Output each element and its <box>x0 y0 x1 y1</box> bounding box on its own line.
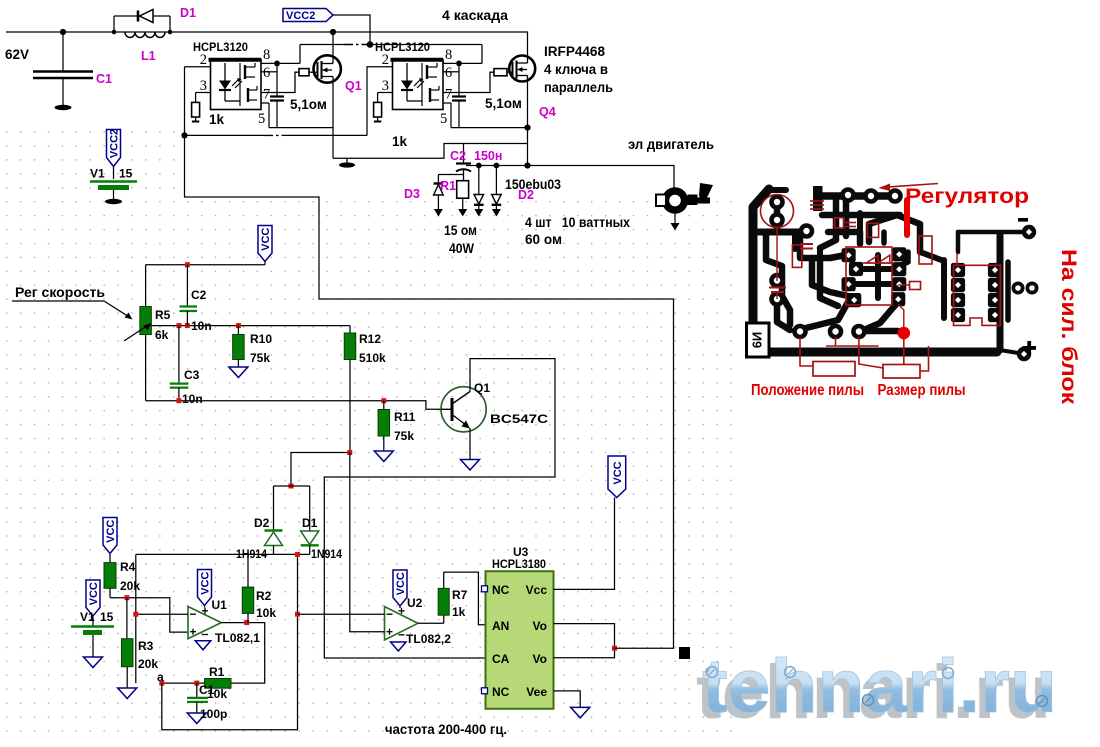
pcb trace cluster h a <box>856 266 897 272</box>
ground R11 <box>374 451 393 462</box>
pcb pads square mid column <box>842 248 864 307</box>
wire drive rail b <box>282 134 367 136</box>
pin 5 U1 <box>258 103 269 128</box>
svg-text:R11: R11 <box>394 410 416 424</box>
pcb trace ic top link <box>920 252 944 261</box>
pcb trace filler i <box>820 258 838 306</box>
wire U1 output <box>221 623 264 684</box>
wire VCC U2 stem <box>399 607 401 609</box>
silk diode triac <box>862 255 894 263</box>
diode D1 <box>114 10 170 33</box>
arrow D2a <box>474 209 483 217</box>
svg-text:5: 5 <box>258 111 265 127</box>
svg-text:эл двигатель: эл двигатель <box>628 137 714 152</box>
pcb trace cluster v <box>875 255 881 298</box>
node R2 bottom <box>244 620 249 625</box>
svg-text:4 каскада: 4 каскада <box>442 8 509 23</box>
node D1 left <box>112 30 117 35</box>
wire VCC2 to rail <box>333 15 370 45</box>
wire stage2 pin5 rail <box>451 127 528 129</box>
power flag VCC U2 <box>393 570 407 606</box>
pin NC1 marker <box>482 586 488 592</box>
svg-text:HCPL3180: HCPL3180 <box>492 557 546 571</box>
svg-text:R12: R12 <box>359 332 381 346</box>
resistor gate 5,1om stage2 <box>459 69 509 93</box>
resistor 1k U1 <box>192 102 200 121</box>
silk rect small b <box>867 223 878 237</box>
resistor R3 <box>121 598 133 688</box>
ground U2 <box>391 642 407 651</box>
ground V1 top <box>105 199 122 204</box>
inductor L1 <box>125 32 165 38</box>
svg-text:параллель: параллель <box>544 80 613 95</box>
wire Q1 source <box>332 83 334 159</box>
diode D2a snubber <box>474 166 484 210</box>
pcb minus stub <box>956 232 961 252</box>
svg-text:5,1ом: 5,1ом <box>485 96 522 111</box>
svg-text:TL082,1: TL082,1 <box>215 631 260 645</box>
svg-text:R5: R5 <box>155 308 171 322</box>
pcb trace top row <box>818 192 895 200</box>
silk ic outline <box>954 265 1001 325</box>
silk rect thin right <box>910 282 921 290</box>
svg-text:60 ом: 60 ом <box>525 232 562 247</box>
diode D1 1N914 <box>301 531 319 554</box>
node R11 top <box>381 398 386 403</box>
resistor R7 <box>438 572 449 623</box>
svg-text:6: 6 <box>445 65 452 81</box>
power flag VCC R4 <box>103 518 117 554</box>
svg-text:Vo: Vo <box>533 652 547 666</box>
svg-text:R3: R3 <box>138 639 154 653</box>
wire drive rail dash <box>264 134 282 136</box>
diode D3 snubber <box>434 184 444 210</box>
label minus terminal <box>1018 218 1028 222</box>
capacitor C3 <box>170 326 189 401</box>
ground Vee <box>571 707 590 718</box>
wire R7 to AN <box>444 572 486 625</box>
pcb trace left v1 <box>766 232 782 296</box>
pin 7 U2 <box>443 87 459 103</box>
silk cap lines a <box>810 201 824 209</box>
wire output to drive <box>185 67 674 649</box>
power flag VCC osc <box>258 226 272 262</box>
transistor Q1 MOSFET <box>314 55 341 82</box>
svg-text:2: 2 <box>382 52 389 68</box>
svg-text:L1: L1 <box>141 49 156 63</box>
motor M1 <box>656 187 710 213</box>
wire Vee U3 <box>554 691 581 708</box>
node C2 bottom <box>185 323 190 328</box>
wire Q1 emitter <box>469 428 471 460</box>
node junction C1 <box>60 29 66 35</box>
ground C1 <box>55 105 72 110</box>
silk pointer bar <box>904 200 910 235</box>
capacitor C1 osc <box>187 683 208 713</box>
svg-text:150ebu03: 150ebu03 <box>505 177 561 192</box>
silk rect small a <box>835 218 844 228</box>
power flag VCC2 left <box>107 130 121 167</box>
pcb trace mid grid c <box>812 258 848 296</box>
silk link right <box>898 284 910 286</box>
svg-text:15: 15 <box>100 610 114 624</box>
svg-text:AN: AN <box>492 619 509 633</box>
arrow R1 snubber <box>458 209 467 217</box>
pcb trace filler d <box>899 252 908 266</box>
pcb trace filler c <box>881 232 887 243</box>
pcb trace bottom link <box>862 328 898 335</box>
pcb trace ic left rail <box>941 260 947 318</box>
svg-text:NC: NC <box>492 583 510 597</box>
wire U2 output <box>418 622 444 624</box>
svg-text:VCC: VCC <box>200 572 212 595</box>
wire minus input U2 <box>298 613 385 615</box>
wire plus input U2 <box>350 453 385 632</box>
svg-text:Размер пилы: Размер пилы <box>878 382 966 399</box>
battery V1 top <box>90 182 137 200</box>
svg-text:R1: R1 <box>440 179 456 193</box>
svg-text:R7: R7 <box>452 588 468 602</box>
wire VCC U1 stem <box>204 606 206 608</box>
ground V1 lower <box>84 657 103 668</box>
node diode bottom <box>295 552 300 557</box>
pin 8 U1 <box>261 45 300 64</box>
node diode top <box>289 484 294 489</box>
node minus U1 <box>133 612 138 617</box>
wire motor arrow <box>674 214 676 223</box>
silk red dot <box>898 327 911 340</box>
svg-text:R10: R10 <box>250 332 272 346</box>
pcb terminal plus pad <box>1017 347 1031 361</box>
svg-text:VCC2: VCC2 <box>286 10 315 22</box>
silk pot1 leads <box>800 337 883 368</box>
node pin8 junction <box>456 61 462 67</box>
node junction Q1 drain <box>330 29 336 35</box>
wire a to bottom rail <box>162 554 298 729</box>
ground stage1 <box>339 158 355 167</box>
pcb trace filler g <box>857 213 863 232</box>
svg-text:6И: 6И <box>749 332 764 349</box>
node Vo junction <box>612 646 617 651</box>
pcb pads round <box>769 187 903 339</box>
silk lines small a <box>845 223 856 227</box>
svg-text:40W: 40W <box>449 241 474 256</box>
pcb trace mid v2 <box>820 215 836 248</box>
wire VCC2 rail b <box>368 44 482 46</box>
resistor R10 <box>233 326 245 367</box>
resistor R2 <box>242 554 254 622</box>
svg-text:75k: 75k <box>394 429 414 443</box>
silk pot2 leads <box>904 338 929 371</box>
capacitor bootstrap U1 <box>270 63 284 127</box>
node D1 right <box>168 30 173 35</box>
svg-text:R2: R2 <box>256 589 272 603</box>
svg-text:D2: D2 <box>254 516 270 530</box>
pcb trace filler e <box>843 215 850 236</box>
silk arrow to regulator <box>879 184 939 192</box>
pcb trace mid grid d <box>857 232 864 244</box>
pcb minus trace <box>958 230 1024 235</box>
node D2b <box>494 163 500 169</box>
svg-text:1Н914: 1Н914 <box>236 547 267 561</box>
svg-text:20k: 20k <box>138 657 158 671</box>
svg-text:1k: 1k <box>392 134 408 149</box>
svg-text:Vee: Vee <box>526 685 547 699</box>
svg-text:a: a <box>157 670 164 684</box>
pcb trace filler f <box>828 229 856 236</box>
svg-text:15: 15 <box>119 167 133 181</box>
svg-text:8: 8 <box>445 47 452 63</box>
label Рег скорость <box>12 285 133 320</box>
svg-text:D1: D1 <box>302 516 318 530</box>
optocoupler U2 HCPL3120 <box>391 60 444 110</box>
svg-text:D1: D1 <box>180 6 196 20</box>
svg-text:U2: U2 <box>407 596 423 610</box>
arrow D3 <box>434 209 443 217</box>
wire Vcc U3 <box>554 498 615 590</box>
pcb trace top left stub <box>769 187 786 193</box>
svg-text:1k: 1k <box>452 605 466 619</box>
pcb trace filler h <box>833 196 840 215</box>
svg-text:Рег скорость: Рег скорость <box>15 285 105 300</box>
pcb trace hook right <box>869 215 920 252</box>
label plus terminal <box>1023 341 1037 355</box>
power flag VCC V1 <box>86 580 100 616</box>
svg-text:15 ом: 15 ом <box>444 223 477 238</box>
pcb trace s-curve b <box>864 303 897 330</box>
svg-text:VCC: VCC <box>105 520 117 543</box>
svg-text:10n: 10n <box>191 319 212 333</box>
op-amp U1 TL082.1 <box>188 607 221 639</box>
resistor gate 5,1om stage1 <box>277 69 314 93</box>
svg-text:BC547C: BC547C <box>490 412 548 426</box>
svg-text:Q1: Q1 <box>345 79 362 93</box>
wire Q4 source <box>527 81 529 165</box>
pin 3 U2 <box>378 78 393 102</box>
pcb pads square right column <box>891 247 906 306</box>
svg-text:7: 7 <box>445 87 452 103</box>
node Q4 source pin rail <box>524 125 530 131</box>
ground U1 <box>195 641 211 650</box>
svg-text:2: 2 <box>200 52 207 68</box>
svg-text:VCC: VCC <box>612 461 624 484</box>
svg-text:V1: V1 <box>80 610 95 624</box>
wire divider to plus input <box>110 598 188 632</box>
wire VCC2 rail dash <box>344 44 368 46</box>
pin 6 U1 <box>261 65 277 81</box>
svg-text:Vo: Vo <box>533 619 547 633</box>
wire R5 column bottom <box>145 335 147 401</box>
silk rect small c <box>792 245 801 268</box>
svg-text:150н: 150н <box>474 149 502 163</box>
svg-text:частота 200-400 гц.: частота 200-400 гц. <box>385 722 507 737</box>
pcb outline left edge <box>753 189 769 349</box>
node Q4 source motor rail <box>524 162 530 168</box>
node D2a <box>476 163 482 169</box>
svg-text:U1: U1 <box>212 598 228 612</box>
silk wire dot up <box>898 304 904 327</box>
potentiometer R5 <box>124 307 152 342</box>
pcb trace left bend <box>782 296 790 325</box>
svg-text:Регулятор: Регулятор <box>905 184 1029 208</box>
svg-text:10k: 10k <box>207 687 227 701</box>
wire a node riser <box>135 554 137 683</box>
wire drive rail a <box>185 134 265 136</box>
node R3 top <box>124 595 129 600</box>
silk big rect mid <box>846 247 892 305</box>
diode D2 1N914 <box>265 531 283 555</box>
silk cap top mid <box>800 244 813 249</box>
wire stage1 ground rail <box>333 144 528 159</box>
wire Vo2 U3 <box>554 648 615 658</box>
power flag VCC U3 <box>608 456 626 498</box>
pcb terminal minus pad <box>1022 225 1036 239</box>
svg-text:5,1ом: 5,1ом <box>290 97 327 112</box>
pcb trace s-curve a <box>800 302 848 331</box>
svg-text:3: 3 <box>200 78 207 94</box>
wire R12 to diode top <box>291 453 350 487</box>
node C1 top <box>194 681 199 686</box>
capacitor C2 150n <box>456 144 471 175</box>
silk left vertical <box>776 228 778 281</box>
svg-text:VCC: VCC <box>88 582 100 605</box>
node C3 top <box>176 323 181 328</box>
svg-text:6k: 6k <box>155 328 169 342</box>
node a <box>159 681 164 686</box>
resistor R11 <box>378 401 390 451</box>
svg-text:C3: C3 <box>184 368 200 382</box>
silk cap left <box>769 288 786 300</box>
wire minus input U1 <box>136 613 188 615</box>
svg-text:C2: C2 <box>450 149 466 163</box>
pcb trace mid v <box>843 196 850 215</box>
wire Q1 drain <box>332 32 334 55</box>
op-amp U2 TL082.2 <box>385 607 418 641</box>
power flag VCC U1 <box>198 570 212 606</box>
svg-text:62V: 62V <box>5 47 29 62</box>
pin NC2 marker <box>482 688 488 694</box>
wire snubber node <box>438 175 463 184</box>
svg-text:Q1: Q1 <box>474 381 490 395</box>
transistor Q4 MOSFET <box>509 56 535 82</box>
ground R3 <box>118 688 137 699</box>
svg-text:D3: D3 <box>404 187 420 201</box>
svg-text:IRFP4468: IRFP4468 <box>544 44 605 59</box>
pcb right vertical <box>997 234 1004 350</box>
wire Vo1 U3 <box>554 624 615 649</box>
node C2 top <box>185 262 190 267</box>
pcb trace filler a <box>792 232 798 249</box>
svg-text:tehnari.ru: tehnari.ru <box>702 644 1057 729</box>
wire diode pair box <box>274 486 310 531</box>
svg-text:4 шт 10 ваттных: 4 шт 10 ваттных <box>525 215 630 230</box>
wire wiper rail <box>152 325 351 327</box>
wire stage1 pin5 rail <box>269 127 333 129</box>
svg-text:Vcc: Vcc <box>526 583 548 597</box>
svg-text:10k: 10k <box>256 606 276 620</box>
svg-text:510k: 510k <box>359 351 386 365</box>
svg-text:VCC: VCC <box>395 572 407 595</box>
mark artifact bottom <box>679 647 690 659</box>
pcb trace cluster h b <box>856 281 897 287</box>
svg-text:20k: 20k <box>120 579 140 593</box>
arrow D2b <box>492 209 501 217</box>
resistor R1 osc <box>162 679 231 689</box>
svg-text:75k: 75k <box>250 351 270 365</box>
svg-text:4 ключа в: 4 ключа в <box>544 62 608 77</box>
pcb trace left h1 <box>759 229 802 236</box>
silk pot1 body <box>813 362 855 377</box>
diode D2b snubber <box>492 166 502 210</box>
optocoupler U1 HCPL3120 <box>209 60 262 110</box>
wire top rail 62V <box>6 32 528 56</box>
svg-text:TL082,2: TL082,2 <box>406 632 451 646</box>
svg-text:Положение пилы: Положение пилы <box>751 382 864 399</box>
battery V1 lower <box>71 617 114 658</box>
node R10 top <box>236 323 241 328</box>
wire osc top rail <box>146 264 265 266</box>
svg-text:5: 5 <box>440 111 447 127</box>
pin 2 U1 <box>185 52 211 68</box>
wire diode rail <box>136 553 310 555</box>
svg-text:VCC2: VCC2 <box>109 129 121 158</box>
resistor R1 snubber <box>457 181 469 210</box>
pin 7 U1 <box>261 87 277 103</box>
svg-text:3: 3 <box>382 78 389 94</box>
node VCC2 rail junction <box>367 41 374 48</box>
silk ic stub <box>956 253 958 265</box>
svg-text:На сил. блок: На сил. блок <box>1057 249 1081 404</box>
pin 5 U2 <box>440 103 451 128</box>
pcb trace pad pair stem <box>774 206 781 231</box>
svg-text:V1: V1 <box>90 167 105 181</box>
svg-text:C1: C1 <box>96 72 112 86</box>
svg-text:R4: R4 <box>120 560 136 574</box>
node U2 minus tap <box>295 612 300 617</box>
wire VCC2 rail <box>300 44 344 46</box>
pin 6 U2 <box>443 65 459 81</box>
power flag VCC2 top <box>283 9 333 23</box>
mark artifact top <box>699 183 713 204</box>
wire stage2 pin2 riser <box>366 67 368 136</box>
pcb trace mid grid a <box>800 232 830 258</box>
pin 8 U2 <box>443 45 482 64</box>
capacitor C1 <box>33 32 93 105</box>
ground R10 <box>229 367 248 378</box>
wire bottom rail osc <box>146 401 441 410</box>
pcb trace ic right rail <box>1005 262 1011 320</box>
node drive rail <box>181 132 187 138</box>
resistor R12 <box>344 326 356 452</box>
node R12 bottom <box>347 450 352 455</box>
pcb trace filler b <box>817 248 823 258</box>
ground Q1 <box>461 460 480 471</box>
pcb trace top bar <box>813 186 823 211</box>
svg-text:R1: R1 <box>209 665 225 679</box>
pcb trace mid h2 <box>822 212 900 219</box>
svg-text:1N914: 1N914 <box>311 547 342 561</box>
pcb plus link <box>1000 350 1018 353</box>
pcb trace mid grid b <box>830 255 846 258</box>
silk pot2 body <box>883 365 920 379</box>
svg-text:VCC: VCC <box>260 228 272 251</box>
pin 2 U2 <box>367 52 393 68</box>
wire R5 column top <box>145 265 147 307</box>
silk circle component <box>761 195 794 228</box>
wire VCC to R4 <box>109 554 111 563</box>
pcb outline bottom edge <box>753 348 997 357</box>
pcb pads small pair <box>1012 282 1039 295</box>
